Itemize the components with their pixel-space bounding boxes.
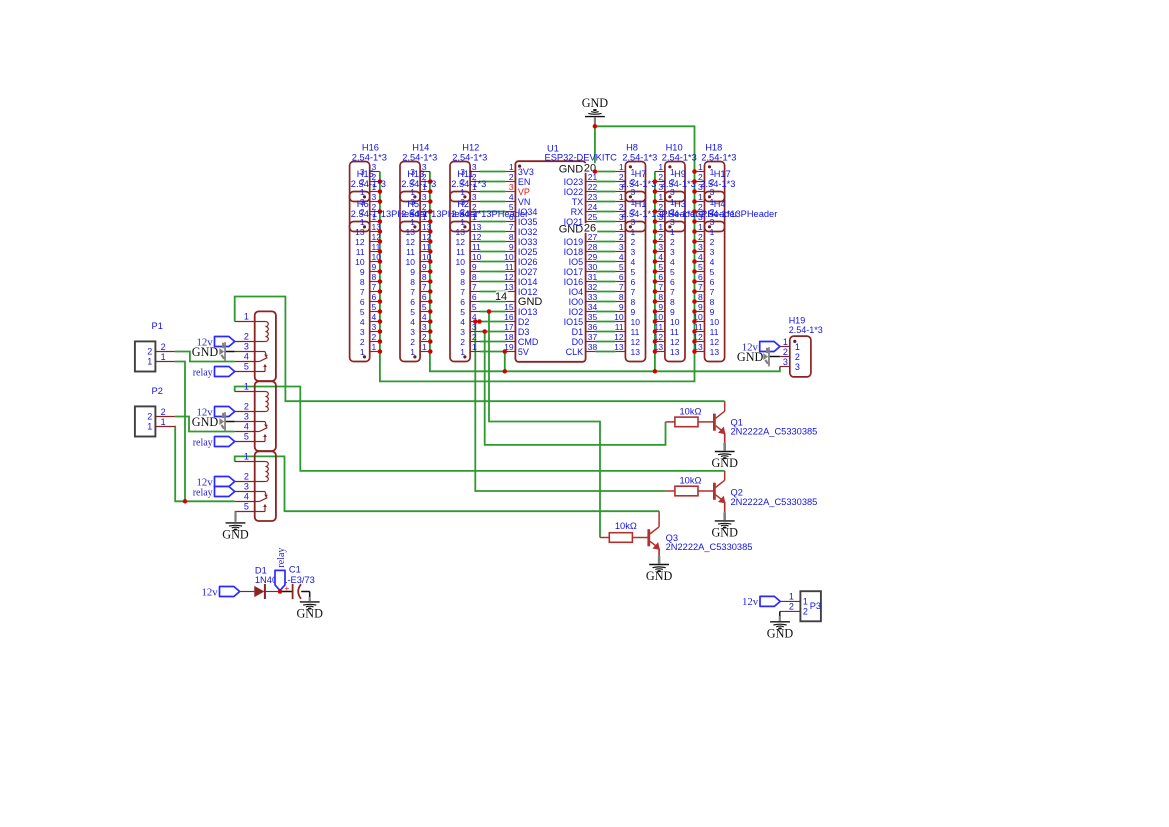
svg-text:2: 2 [244,472,249,482]
svg-text:37: 37 [588,332,598,342]
svg-text:3: 3 [698,242,703,252]
svg-text:relay: relay [276,548,287,568]
svg-text:8: 8 [670,297,675,307]
svg-text:H10: H10 [666,142,683,152]
svg-text:H8: H8 [626,142,638,152]
svg-text:12: 12 [710,337,720,347]
svg-text:H4: H4 [714,199,726,209]
svg-text:1: 1 [789,591,794,601]
svg-text:4: 4 [460,317,465,327]
svg-text:10: 10 [456,257,466,267]
svg-text:IO25: IO25 [518,247,538,257]
svg-text:1: 1 [670,227,675,237]
svg-text:GND: GND [646,569,673,583]
svg-text:IO18: IO18 [564,247,584,257]
svg-text:1: 1 [360,347,365,357]
svg-text:4: 4 [509,192,514,202]
svg-text:2: 2 [460,337,465,347]
svg-text:H1: H1 [635,199,647,209]
svg-text:2.54-1*3: 2.54-1*3 [402,152,437,162]
svg-text:H5: H5 [407,199,419,209]
svg-text:H11: H11 [457,169,473,179]
svg-text:2.54-1*3: 2.54-1*3 [401,179,436,189]
svg-text:7: 7 [710,287,715,297]
svg-text:relay: relay [193,487,213,498]
svg-text:33: 33 [588,292,598,302]
svg-text:9: 9 [410,267,415,277]
svg-text:4: 4 [698,252,703,262]
svg-text:RX: RX [571,207,584,217]
svg-text:2: 2 [795,352,800,362]
svg-text:1: 1 [631,227,636,237]
svg-text:10: 10 [355,257,365,267]
svg-text:3: 3 [244,342,249,352]
svg-text:H16: H16 [362,142,379,152]
svg-text:3: 3 [509,182,514,192]
svg-text:11: 11 [472,242,481,252]
svg-text:1: 1 [783,337,788,347]
svg-text:12v: 12v [201,586,218,598]
svg-text:7: 7 [460,287,465,297]
svg-text:6: 6 [670,277,675,287]
svg-text:GND: GND [582,96,609,110]
svg-text:10: 10 [406,257,416,267]
svg-text:18: 18 [504,332,514,342]
svg-text:ESP32-DEVKITC: ESP32-DEVKITC [545,153,618,163]
svg-text:1: 1 [161,352,166,362]
svg-text:3: 3 [360,327,365,337]
svg-text:2N2222A_C5330385: 2N2222A_C5330385 [731,427,818,437]
svg-text:27: 27 [588,232,598,242]
svg-text:7: 7 [658,282,663,292]
svg-text:3: 3 [244,482,249,492]
svg-text:10kΩ: 10kΩ [615,521,637,531]
svg-text:2: 2 [670,237,675,247]
svg-text:5: 5 [460,307,465,317]
svg-text:3: 3 [410,327,415,337]
svg-text:7: 7 [372,282,377,292]
svg-text:1: 1 [698,222,703,232]
svg-text:H2: H2 [457,199,469,209]
svg-text:13: 13 [472,222,482,232]
svg-text:2.54-1*13PHeader: 2.54-1*13PHeader [451,209,528,219]
svg-text:5: 5 [710,267,715,277]
svg-text:9: 9 [372,262,377,272]
svg-text:1: 1 [710,227,715,237]
svg-text:10kΩ: 10kΩ [680,406,702,416]
svg-text:5: 5 [244,432,249,442]
svg-text:6: 6 [698,272,703,282]
svg-text:3: 3 [472,192,477,202]
svg-text:8: 8 [360,277,365,287]
svg-text:5V: 5V [518,347,529,357]
svg-text:12: 12 [472,232,482,242]
svg-text:3: 3 [422,322,427,332]
svg-text:5: 5 [619,262,624,272]
svg-text:4: 4 [244,492,249,502]
svg-text:7: 7 [422,282,427,292]
svg-text:2: 2 [783,347,788,357]
svg-text:3: 3 [658,242,663,252]
svg-text:9: 9 [460,267,465,277]
svg-text:GND: GND [222,528,249,542]
svg-text:32: 32 [588,282,598,292]
svg-text:4: 4 [619,252,624,262]
svg-text:13: 13 [670,347,680,357]
svg-text:3: 3 [783,357,788,367]
svg-text:8: 8 [422,272,427,282]
svg-text:3: 3 [631,247,636,257]
svg-text:36: 36 [588,322,598,332]
svg-text:GND: GND [711,526,738,540]
svg-text:3: 3 [460,327,465,337]
svg-text:11: 11 [631,327,640,337]
svg-text:5: 5 [410,307,415,317]
svg-text:8: 8 [472,272,477,282]
svg-text:relay: relay [193,437,213,448]
svg-text:1: 1 [509,162,514,172]
svg-text:3: 3 [710,247,715,257]
svg-text:1: 1 [410,347,415,357]
svg-text:4: 4 [631,257,636,267]
svg-text:13: 13 [710,347,720,357]
svg-text:1: 1 [244,312,249,322]
svg-text:12: 12 [355,237,365,247]
svg-text:CLK: CLK [566,347,584,357]
svg-text:5: 5 [244,362,249,372]
svg-text:2: 2 [422,332,427,342]
svg-text:IO5: IO5 [569,257,584,267]
svg-text:6: 6 [360,297,365,307]
svg-text:3: 3 [422,192,427,202]
svg-text:9: 9 [422,262,427,272]
svg-text:IO23: IO23 [564,177,584,187]
svg-text:IO19: IO19 [564,237,584,247]
svg-text:1: 1 [422,342,427,352]
svg-text:10: 10 [472,252,482,262]
svg-text:2: 2 [161,407,166,417]
svg-text:1: 1 [658,192,663,202]
svg-text:H15: H15 [357,169,374,179]
svg-text:GND: GND [737,350,764,364]
svg-text:30: 30 [588,262,598,272]
svg-text:10: 10 [504,252,514,262]
svg-text:1: 1 [698,192,703,202]
svg-text:6: 6 [410,297,415,307]
svg-text:H18: H18 [705,142,722,152]
svg-text:H7: H7 [635,169,647,179]
svg-text:3: 3 [795,362,800,372]
svg-text:2: 2 [710,237,715,247]
svg-text:D0: D0 [572,337,584,347]
svg-text:4: 4 [372,312,377,322]
svg-text:H12: H12 [462,142,479,152]
svg-text:IO27: IO27 [518,267,538,277]
svg-text:28: 28 [588,242,598,252]
svg-text:2N2222A_C5330385: 2N2222A_C5330385 [666,542,753,552]
svg-text:P2: P2 [152,386,163,396]
svg-text:12: 12 [670,337,680,347]
svg-text:13: 13 [456,227,466,237]
svg-text:8: 8 [710,297,715,307]
svg-text:7: 7 [410,287,415,297]
svg-text:17: 17 [504,322,514,332]
svg-text:8: 8 [410,277,415,287]
svg-text:2: 2 [658,232,663,242]
svg-text:2: 2 [147,346,152,356]
svg-text:5: 5 [658,262,663,272]
svg-text:10: 10 [710,317,720,327]
svg-text:7: 7 [670,287,675,297]
svg-text:GND: GND [192,415,219,429]
svg-text:2: 2 [244,332,249,342]
svg-text:D3: D3 [518,327,530,337]
svg-text:1: 1 [619,222,624,232]
svg-text:6: 6 [422,292,427,302]
svg-text:1: 1 [619,192,624,202]
svg-text:IO13: IO13 [518,307,538,317]
svg-text:8: 8 [372,272,377,282]
svg-text:1: 1 [658,222,663,232]
svg-text:25: 25 [588,212,598,222]
svg-text:1: 1 [147,356,152,366]
svg-text:1: 1 [698,162,703,172]
svg-text:2.54-1*3: 2.54-1*3 [789,325,823,335]
svg-text:relay: relay [193,367,213,378]
svg-text:11: 11 [356,247,365,257]
svg-text:1: 1 [795,342,800,352]
svg-text:21: 21 [588,172,598,182]
svg-text:2: 2 [360,337,365,347]
svg-text:2.54-1*3: 2.54-1*3 [700,179,735,189]
svg-text:2: 2 [803,606,808,616]
svg-text:11: 11 [615,322,624,332]
svg-text:2.54-1*3: 2.54-1*3 [452,152,487,162]
svg-text:31: 31 [588,272,598,282]
svg-text:IO14: IO14 [518,277,538,287]
svg-text:C1: C1 [289,564,301,574]
svg-text:7: 7 [472,282,477,292]
svg-text:5: 5 [509,202,514,212]
svg-text:6: 6 [710,277,715,287]
svg-text:GND: GND [559,224,584,236]
svg-text:9: 9 [698,302,703,312]
svg-text:7: 7 [509,222,514,232]
svg-text:H3: H3 [674,199,686,209]
svg-text:10: 10 [670,317,680,327]
svg-text:11: 11 [456,247,465,257]
svg-text:2: 2 [372,332,377,342]
svg-text:8: 8 [619,292,624,302]
svg-text:GND: GND [767,626,794,640]
svg-text:2.54-1*3: 2.54-1*3 [701,152,736,162]
svg-text:2: 2 [244,402,249,412]
svg-text:GND: GND [559,164,584,176]
svg-text:D1: D1 [572,327,584,337]
svg-text:6: 6 [372,292,377,302]
svg-text:2: 2 [472,332,477,342]
svg-text:2.54-1*3: 2.54-1*3 [621,179,656,189]
svg-text:2.54-1*3: 2.54-1*3 [451,179,486,189]
svg-text:13: 13 [406,227,416,237]
svg-text:H17: H17 [714,169,731,179]
svg-text:EN: EN [518,177,531,187]
svg-text:IO22: IO22 [564,187,584,197]
svg-text:6: 6 [619,272,624,282]
svg-text:12: 12 [456,237,466,247]
svg-text:3: 3 [244,412,249,422]
svg-text:4: 4 [670,257,675,267]
svg-text:10: 10 [614,312,624,322]
svg-text:9: 9 [360,267,365,277]
svg-text:VP: VP [518,187,530,197]
svg-text:2: 2 [698,232,703,242]
svg-text:2: 2 [161,342,166,352]
svg-text:IO35: IO35 [518,217,538,227]
svg-text:29: 29 [588,252,598,262]
svg-text:3: 3 [372,322,377,332]
svg-text:GND: GND [296,607,323,621]
svg-text:12: 12 [504,272,514,282]
svg-text:GND: GND [711,456,738,470]
svg-text:13: 13 [631,347,641,357]
svg-text:34: 34 [588,302,598,312]
svg-text:1: 1 [472,342,477,352]
svg-text:2.54-1*3: 2.54-1*3 [622,152,657,162]
svg-text:12: 12 [406,237,416,247]
svg-text:38: 38 [588,342,598,352]
svg-text:9: 9 [658,302,663,312]
svg-text:GND: GND [192,345,219,359]
svg-text:3: 3 [372,192,377,202]
svg-text:2.54-1*3: 2.54-1*3 [351,179,386,189]
svg-text:1: 1 [803,596,808,606]
svg-text:8: 8 [658,292,663,302]
svg-text:7: 7 [631,287,636,297]
svg-text:P3: P3 [810,601,821,611]
svg-text:9: 9 [710,307,715,317]
svg-text:5: 5 [631,267,636,277]
svg-text:24: 24 [588,202,598,212]
svg-text:H6: H6 [357,199,369,209]
svg-text:9: 9 [670,307,675,317]
svg-text:IO2: IO2 [569,307,584,317]
svg-text:1: 1 [244,382,249,392]
svg-text:12: 12 [631,337,641,347]
svg-text:1: 1 [147,421,152,431]
svg-text:8: 8 [509,232,514,242]
svg-text:13: 13 [614,342,624,352]
svg-text:IO17: IO17 [564,267,584,277]
svg-text:5: 5 [244,502,249,512]
svg-text:IO32: IO32 [518,227,538,237]
svg-text:2: 2 [789,601,794,611]
svg-text:D2: D2 [518,317,530,327]
svg-text:1: 1 [658,162,663,172]
svg-text:IO0: IO0 [569,297,584,307]
svg-text:VN: VN [518,197,531,207]
svg-text:16: 16 [504,312,514,322]
svg-text:8: 8 [460,277,465,287]
svg-text:4: 4 [360,317,365,327]
svg-text:15: 15 [504,302,514,312]
svg-text:12: 12 [614,332,624,342]
svg-text:1: 1 [244,452,249,462]
svg-text:7: 7 [619,282,624,292]
svg-text:1: 1 [460,347,465,357]
svg-text:2N2222A_C5330385: 2N2222A_C5330385 [731,497,818,507]
svg-text:7: 7 [360,287,365,297]
svg-text:H14: H14 [412,142,429,152]
svg-text:13: 13 [355,227,365,237]
svg-text:2: 2 [147,411,152,421]
svg-text:2: 2 [631,237,636,247]
svg-text:3: 3 [670,247,675,257]
svg-text:TX: TX [572,197,584,207]
svg-text:5: 5 [698,262,703,272]
svg-text:35: 35 [588,312,598,322]
svg-text:4: 4 [658,252,663,262]
svg-text:IO26: IO26 [518,257,538,267]
svg-text:3V3: 3V3 [518,167,534,177]
svg-text:2: 2 [619,232,624,242]
svg-text:5: 5 [670,267,675,277]
svg-text:IO33: IO33 [518,237,538,247]
svg-text:6: 6 [472,292,477,302]
svg-text:22: 22 [588,182,598,192]
svg-text:9: 9 [619,302,624,312]
svg-text:P1: P1 [152,321,163,331]
svg-text:11: 11 [406,247,415,257]
svg-text:H13: H13 [407,169,424,179]
svg-text:9: 9 [472,262,477,272]
svg-text:5: 5 [372,302,377,312]
svg-text:5: 5 [422,302,427,312]
svg-text:2.54-1*3: 2.54-1*3 [352,152,387,162]
svg-text:7: 7 [698,282,703,292]
svg-text:4: 4 [422,312,427,322]
svg-text:4: 4 [244,352,249,362]
svg-text:2: 2 [410,337,415,347]
svg-text:IO34: IO34 [518,207,538,217]
svg-text:10kΩ: 10kΩ [680,476,702,486]
svg-text:4: 4 [710,257,715,267]
svg-text:3: 3 [619,242,624,252]
svg-text:11: 11 [505,262,514,272]
svg-text:4: 4 [244,422,249,432]
svg-text:2.54-1*13PHeader: 2.54-1*13PHeader [700,209,777,219]
svg-text:2.54-1*3: 2.54-1*3 [662,152,697,162]
svg-text:9: 9 [509,242,514,252]
svg-text:6: 6 [631,277,636,287]
svg-text:14: 14 [495,291,507,303]
svg-text:8: 8 [698,292,703,302]
svg-text:IO4: IO4 [569,287,584,297]
svg-text:2: 2 [509,172,514,182]
svg-text:1: 1 [372,342,377,352]
svg-text:1: 1 [161,417,166,427]
svg-text:IO16: IO16 [564,277,584,287]
svg-text:11: 11 [670,327,679,337]
svg-text:10: 10 [631,317,641,327]
svg-text:IO15: IO15 [564,317,584,327]
svg-text:3: 3 [472,322,477,332]
svg-text:23: 23 [588,192,598,202]
svg-text:CMD: CMD [518,337,539,347]
svg-text:6: 6 [658,272,663,282]
svg-text:2.54-1*3: 2.54-1*3 [661,179,696,189]
svg-text:6: 6 [460,297,465,307]
